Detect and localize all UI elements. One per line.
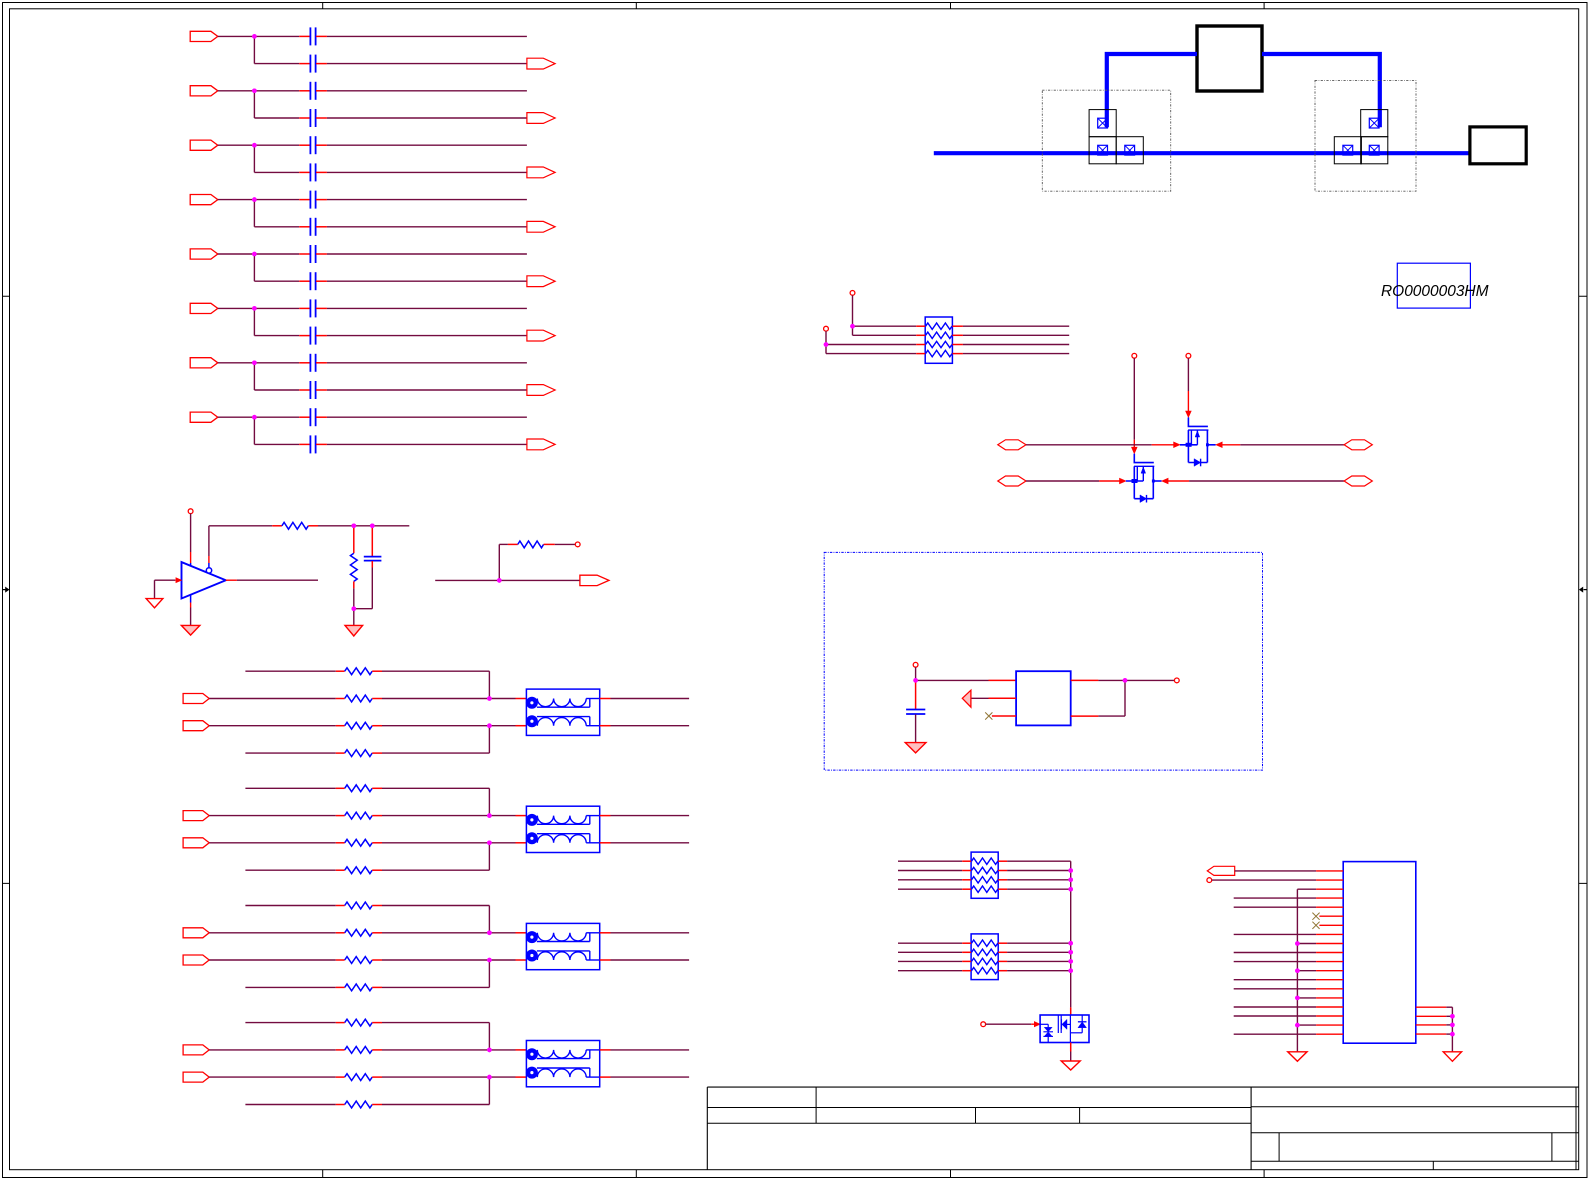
wire choke L3 out N: [600, 959, 611, 961]
wire pin4 long: [1234, 897, 1316, 899]
wire C16 to port OUT8: [316, 443, 327, 445]
wire C14 to port OUT7: [316, 389, 327, 391]
op-amp inverting bubble: [206, 568, 211, 573]
wire R24 to choke: [372, 1076, 382, 1078]
wire TVS input: [986, 1023, 1032, 1025]
wire C8 to port OUT4: [316, 226, 327, 228]
transistor Q2: [1134, 454, 1154, 463]
wire choke L1 out P: [600, 698, 611, 700]
wire U3 pin2 enable: [989, 697, 1017, 699]
wire node A to R2: [353, 528, 355, 553]
node junction pair 3: [252, 143, 257, 148]
wire port IN8 to node: [218, 416, 255, 418]
wire group4 line C: [209, 1076, 336, 1078]
regulator U3: [1016, 671, 1071, 725]
wire choke L2 out N: [600, 842, 611, 844]
junction dot overlay: [252, 34, 257, 39]
wire op-amp input: [155, 579, 176, 581]
wire group2 line C: [209, 842, 336, 844]
capacitor C6: [309, 163, 311, 181]
port OUT1: [527, 58, 555, 69]
wire pin14 long: [1234, 988, 1316, 990]
port IN5: [190, 249, 218, 259]
resistor R10 group1A: [345, 668, 373, 675]
wire branch to C6: [254, 171, 299, 173]
resistor R19 group3B: [345, 929, 373, 936]
port IN3: [190, 140, 218, 150]
wire C10 to port OUT5: [316, 280, 327, 282]
capacitor C13: [309, 354, 311, 372]
port group2 P: [183, 811, 209, 821]
wire node to C18: [915, 680, 917, 709]
IC U2 body: [1343, 862, 1416, 1044]
wire C2 to port OUT1: [316, 63, 327, 65]
port OUT4: [527, 221, 555, 232]
ground IC right bus: [1443, 1052, 1461, 1062]
bus node pin9: [1295, 941, 1300, 946]
wire branch to C8: [254, 226, 299, 228]
block module M2: [1470, 127, 1526, 164]
node output tap: [497, 578, 502, 583]
wire vertical branch pair 2: [253, 91, 255, 118]
node junction pair 6: [252, 306, 257, 311]
arrow port enable: [962, 690, 971, 707]
node junction pair 7: [252, 361, 257, 366]
wire port IN6 to node: [218, 307, 255, 309]
port group1 P: [183, 694, 209, 704]
pad group1 top: [1089, 110, 1116, 137]
wire C7 out: [316, 199, 327, 201]
port channel 1 left: [998, 440, 1026, 450]
wire branch to C4: [254, 117, 299, 119]
wire group2 line B: [209, 815, 336, 817]
port OUT2: [527, 113, 555, 124]
wire group3 line D: [245, 986, 335, 988]
wire node to C9: [254, 253, 299, 255]
wire node to C1: [254, 35, 299, 37]
capacitor C15: [309, 408, 311, 426]
node junction pair 2: [252, 89, 257, 94]
wire C1 out: [316, 35, 327, 37]
port OUT3: [527, 167, 555, 178]
wire R25 to corner: [372, 1104, 382, 1106]
wire C4 to port OUT2: [316, 117, 327, 119]
wire thick blue M1 right: [1262, 54, 1380, 127]
node RC bottom: [352, 606, 357, 611]
node regulator input: [913, 678, 918, 683]
wire group3 line A: [245, 905, 335, 907]
wire IC right pin b: [1416, 1015, 1447, 1017]
resistor R16 group2C: [345, 839, 373, 846]
wire U3 pin3 nc: [992, 715, 1016, 717]
node junction pair 4: [252, 197, 257, 202]
wire R10 to corner: [372, 670, 382, 672]
ground regulator: [905, 743, 926, 753]
wire choke L3 out P: [600, 932, 611, 934]
dashed box connector group 2: [1315, 80, 1416, 191]
wire branch to C10: [254, 280, 299, 282]
wire TVS to ground: [1070, 1043, 1072, 1052]
port channel 2 right: [1344, 476, 1372, 486]
right border center arrow: [1584, 589, 1588, 591]
ground IC left bus: [1288, 1052, 1307, 1062]
wire IC right bus: [1451, 1007, 1453, 1052]
resistor R12 group1C: [345, 722, 373, 729]
no-connect X U3 pin3: [985, 712, 992, 719]
wire vertical branch pair 8: [253, 417, 255, 444]
wire pin15 from bus: [1297, 997, 1316, 999]
wire pin2: [1212, 879, 1316, 881]
transistor Q1: [1188, 417, 1208, 426]
wire node to C3: [254, 90, 299, 92]
wire R18 to corner: [372, 905, 382, 907]
wire node to C7: [254, 199, 299, 201]
wire C12 to port OUT6: [316, 335, 327, 337]
node R1 out A: [352, 524, 357, 529]
wire group1 line D: [245, 752, 335, 754]
port IN7: [190, 358, 218, 368]
no-connect X pin6: [1312, 913, 1319, 920]
wire R20 to choke: [372, 959, 382, 961]
wire C6 to port OUT3: [316, 171, 327, 173]
common-mode choke L1: [526, 689, 599, 735]
port IN1: [190, 31, 218, 41]
resistor R1 feedback: [282, 522, 308, 529]
wire node to U3 pin1: [916, 679, 989, 681]
wire vertical branch pair 3: [253, 145, 255, 172]
wire ch2 left: [1026, 480, 1099, 482]
blue annotation box: [1397, 263, 1470, 308]
capacitor C12: [309, 327, 311, 345]
svg-text:RO0000003HM: RO0000003HM: [1381, 283, 1489, 300]
port group4 N: [183, 1072, 209, 1082]
port DOUT left-pointing: [1207, 866, 1234, 875]
wire IC right pin d: [1416, 1033, 1447, 1035]
port channel 2 left: [998, 476, 1026, 486]
wire R3 to test point: [544, 543, 555, 545]
resistor R18 group3A: [345, 902, 373, 909]
wire R1 to nodes: [308, 525, 318, 527]
capacitor C9: [309, 245, 311, 263]
resistor R2 shunt: [350, 553, 357, 581]
port IN2: [190, 86, 218, 96]
node group1 C: [487, 723, 492, 728]
capacitor C7: [309, 191, 311, 209]
wire R11 to choke: [372, 698, 382, 700]
op-amp U1: [182, 562, 226, 598]
wire choke L2 out P: [600, 815, 611, 817]
wire group3 line C: [209, 959, 336, 961]
wire R21 to corner: [372, 986, 382, 988]
resistor R23 group4B: [345, 1047, 373, 1054]
resistor R20 group3C: [345, 957, 373, 964]
wire port IN2 to node: [218, 90, 255, 92]
gate drive circle B: [1186, 353, 1191, 358]
wire group1 line B: [209, 698, 336, 700]
bus node pin15: [1295, 996, 1300, 1001]
wire pin13 long: [1234, 979, 1316, 981]
wire pin3 from bus corner: [1297, 888, 1316, 890]
wire pin6 nc: [1319, 915, 1343, 917]
wire C13 out: [316, 362, 327, 364]
common-mode choke L4: [526, 1041, 599, 1087]
wire ch1 right: [1216, 442, 1222, 448]
wire R15 to choke: [372, 815, 382, 817]
power node circle op-amp: [188, 509, 193, 514]
capacitor C16: [309, 435, 311, 453]
ground op-amp: [181, 625, 200, 635]
resistor R3 series: [518, 541, 544, 548]
port group2 N: [183, 838, 209, 848]
wire C18 to ground: [915, 714, 917, 742]
TVS diode array D1: [1040, 1015, 1089, 1043]
wire group2 line D: [245, 869, 335, 871]
pad group2 top: [1361, 110, 1388, 137]
wire group4 line A: [245, 1022, 335, 1024]
node junction pair 5: [252, 252, 257, 257]
node junction pair 8: [252, 415, 257, 420]
wire C5 out: [316, 144, 327, 146]
wire node to C13: [254, 362, 299, 364]
wire C17 to corner: [371, 561, 373, 568]
wire op-amp V- to ground: [190, 595, 192, 603]
node group4 B: [487, 1048, 492, 1053]
bus junction nodes: [1068, 868, 1073, 873]
wire R14 to corner: [372, 787, 382, 789]
wire bottom node to ground: [353, 609, 355, 626]
wire group1 line C: [209, 725, 336, 727]
wire C15 out: [316, 416, 327, 418]
left border center arrow: [3, 589, 6, 591]
capacitor C2: [309, 55, 311, 73]
wire circle to node: [915, 667, 917, 680]
wire vertical branch pair 5: [253, 254, 255, 281]
wire pin19 long: [1234, 1033, 1316, 1035]
border zone tick marks: [322, 3, 324, 1178]
wire tap up to R3: [498, 544, 500, 580]
capacitor C10: [309, 272, 311, 290]
resistor R24 group4C: [345, 1074, 373, 1081]
wire thick blue M1 left: [1107, 54, 1197, 127]
wire circle to RN1 lines 3-4: [825, 331, 827, 354]
resistor network RN1: [925, 317, 952, 363]
node group4 C: [487, 1075, 492, 1080]
pin2 circle: [1207, 878, 1212, 883]
wire C9 out: [316, 253, 327, 255]
power circle RN1 a: [850, 291, 855, 296]
wire branch to C12: [254, 335, 299, 337]
wire port IN1 to node: [218, 35, 255, 37]
wire vertical branch pair 6: [253, 308, 255, 335]
wire port IN4 to node: [218, 199, 255, 201]
no-connect X pin7: [1312, 922, 1319, 929]
wire node to C11: [254, 307, 299, 309]
resistor R11 group1B: [345, 695, 373, 702]
dashed box connector group 1: [1042, 90, 1170, 191]
wire circle to RN1 lines 1-2: [852, 295, 854, 335]
dashed function box: [824, 552, 1262, 770]
wire branch to C16: [254, 443, 299, 445]
ground TVS: [1061, 1061, 1080, 1070]
wire pin8 long: [1234, 933, 1316, 935]
capacitor C17 shunt: [364, 556, 382, 558]
capacitor C3: [309, 82, 311, 100]
wire choke L4 out P: [600, 1049, 611, 1051]
wire R17 to corner: [372, 869, 382, 871]
wire R23 to choke: [372, 1049, 382, 1051]
wire vertical branch pair 7: [253, 363, 255, 390]
wire choke L1 out N: [600, 725, 611, 727]
wire pin18 from bus: [1297, 1024, 1316, 1026]
resistor R22 group4A: [345, 1019, 373, 1026]
wire R13 to corner: [372, 752, 382, 754]
node group1 B: [487, 696, 492, 701]
wire input to ground: [154, 580, 156, 598]
capacitor C1: [309, 27, 311, 45]
wire output net horizontal: [435, 579, 580, 581]
wire group2 line A: [245, 787, 335, 789]
pad group2 bottom-left: [1334, 137, 1361, 164]
wire thick blue bus horizontal: [934, 151, 1470, 155]
pad group2 bottom-right: [1361, 137, 1388, 164]
bus node pin18: [1295, 1023, 1300, 1028]
capacitor C14: [309, 381, 311, 399]
capacitor C8: [309, 218, 311, 236]
port OUT8: [527, 439, 555, 450]
wire U3 out bottom: [1071, 715, 1099, 717]
wire branch to C2: [254, 63, 299, 65]
capacitor C11: [309, 299, 311, 317]
power circle regulator: [913, 662, 918, 667]
port OUT6: [527, 330, 555, 341]
port group3 N: [183, 955, 209, 965]
right bus node d: [1450, 1032, 1455, 1037]
wire group4 line B: [209, 1049, 336, 1051]
resistor network RN3: [971, 934, 998, 980]
wire ch2 right: [1162, 478, 1168, 484]
port IN4: [190, 195, 218, 205]
right bus node b: [1450, 1014, 1455, 1019]
wire vertical branch pair 1: [253, 36, 255, 63]
common-mode choke L2: [526, 806, 599, 852]
wire R16 to choke: [372, 842, 382, 844]
wire branch to C14: [254, 389, 299, 391]
wire group1 line A: [245, 670, 335, 672]
ground input: [146, 599, 163, 608]
wire node B to C17: [371, 528, 373, 556]
wire C11 out: [316, 307, 327, 309]
port OUT9: [580, 575, 609, 585]
pad group1 bottom-left: [1089, 137, 1116, 164]
wire port IN3 to node: [218, 144, 255, 146]
wire U3 out top: [1071, 679, 1099, 681]
resistor network RN2: [971, 852, 998, 898]
wire R2 to bottom node: [353, 581, 355, 588]
title block table: [707, 1086, 1578, 1088]
wire R22 to corner: [372, 1022, 382, 1024]
wire group3 line B: [209, 932, 336, 934]
wire pin11 long: [1234, 961, 1316, 963]
wire IC right pin c: [1416, 1024, 1447, 1026]
wire power to op-amp V+: [190, 514, 192, 552]
capacitor C18: [906, 709, 925, 711]
node group3 C: [487, 958, 492, 963]
wire gate A: [1133, 358, 1135, 440]
port IN8: [190, 412, 218, 422]
node group2 B: [487, 813, 492, 818]
wire output to circle: [1125, 679, 1174, 681]
capacitor C4: [309, 109, 311, 127]
wire pin7 nc: [1319, 924, 1343, 926]
wire IC right pin a: [1416, 1006, 1447, 1008]
node U3 output: [1123, 678, 1128, 683]
block module M1: [1197, 26, 1262, 91]
port IN6: [190, 303, 218, 313]
wire feedback top: [209, 525, 272, 527]
wire pin1: [1235, 870, 1316, 872]
node R1 out B: [370, 524, 375, 529]
power circle RN1 b: [824, 326, 829, 331]
wire node to C15: [254, 416, 299, 418]
wire ch1 left: [1026, 444, 1152, 446]
node group3 B: [487, 931, 492, 936]
ground RC: [345, 625, 363, 636]
wire group4 line D: [245, 1104, 335, 1106]
wire R12 to choke: [372, 725, 382, 727]
test point circle R3: [575, 542, 580, 547]
common-mode choke L3: [526, 923, 599, 969]
wire pin17 long: [1234, 1015, 1316, 1017]
port group4 P: [183, 1045, 209, 1055]
wire feedback down to bubble: [208, 526, 210, 556]
wire R19 to choke: [372, 932, 382, 934]
wire pin12 from bus: [1297, 970, 1316, 972]
wire pin9 from bus: [1297, 943, 1316, 945]
node junction pair 1: [252, 34, 257, 39]
wire choke L4 out N: [600, 1076, 611, 1078]
gate drive circle A: [1132, 353, 1137, 358]
port channel 1 right: [1344, 440, 1372, 450]
node RN1 line1: [850, 324, 855, 329]
bus node pin12: [1295, 968, 1300, 973]
wire port IN5 to node: [218, 253, 255, 255]
port group1 N: [183, 721, 209, 731]
wire pin10 long: [1234, 952, 1316, 954]
pad group1 bottom-right: [1116, 137, 1143, 164]
node RN1 line3: [824, 342, 829, 347]
resistor R15 group2B: [345, 812, 373, 819]
resistor R25 group4D: [345, 1101, 373, 1108]
port group3 P: [183, 928, 209, 938]
wire pin5 long: [1234, 906, 1316, 908]
port OUT7: [527, 385, 555, 396]
wire op-amp output: [226, 579, 237, 581]
wire C3 out: [316, 90, 327, 92]
wire pin16 long: [1234, 1006, 1316, 1008]
resistor R17 group2D: [345, 867, 373, 874]
node group2 C: [487, 841, 492, 846]
port OUT5: [527, 276, 555, 287]
wire vertical branch pair 4: [253, 200, 255, 227]
wire port IN7 to node: [218, 362, 255, 364]
resistor R14 group2A: [345, 785, 373, 792]
output circle regulator: [1174, 678, 1179, 683]
wire IC ground bus: [1296, 889, 1298, 1052]
capacitor C5: [309, 136, 311, 154]
wire node to C5: [254, 144, 299, 146]
resistor R13 group1D: [345, 750, 373, 757]
wire gate B: [1187, 358, 1189, 391]
